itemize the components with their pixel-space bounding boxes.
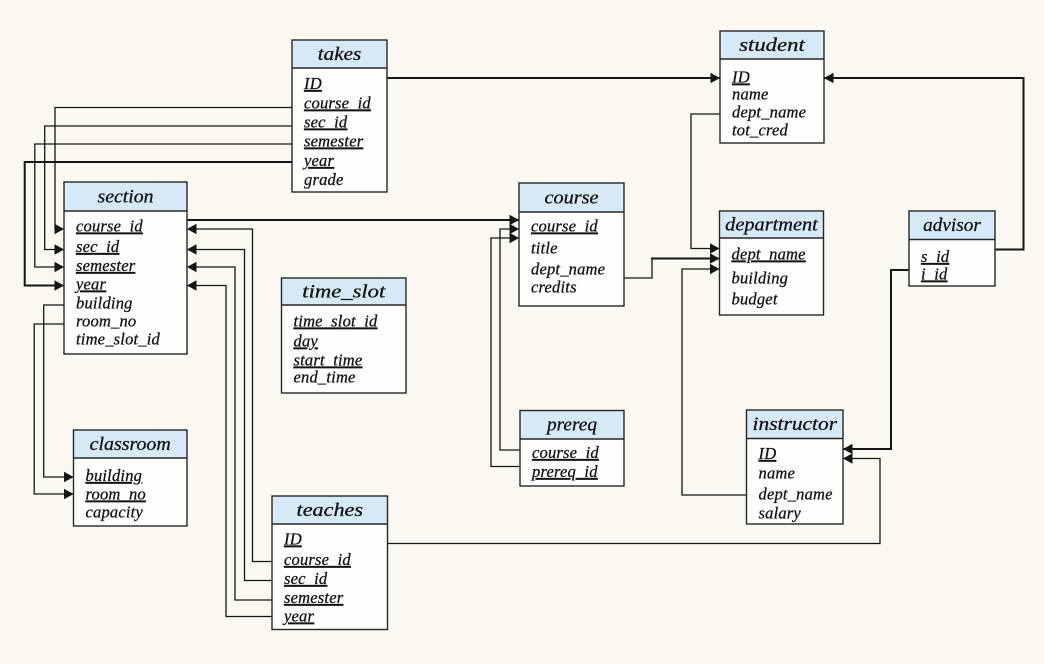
svg-text:ID: ID	[758, 444, 777, 463]
svg-text:semester: semester	[284, 588, 344, 607]
svg-text:grade: grade	[304, 170, 344, 189]
svg-text:building: building	[732, 269, 789, 288]
table course	[519, 183, 624, 306]
svg-text:course_id: course_id	[284, 550, 351, 569]
svg-text:ID: ID	[283, 530, 302, 549]
wire advisor.i_id to instructor.ID	[843, 270, 909, 454]
svg-text:budget: budget	[732, 290, 778, 309]
svg-text:building: building	[76, 294, 133, 313]
svg-text:year: year	[74, 275, 106, 294]
svg-text:end_time: end_time	[294, 368, 356, 387]
svg-text:credits: credits	[531, 278, 577, 297]
svg-text:course_id: course_id	[76, 217, 143, 236]
svg-text:year: year	[282, 607, 314, 626]
svg-text:student: student	[739, 36, 806, 56]
svg-text:instructor: instructor	[753, 415, 838, 435]
svg-text:title: title	[531, 239, 558, 258]
table advisor	[909, 211, 995, 286]
svg-text:dept_name: dept_name	[732, 245, 806, 264]
svg-text:room_no: room_no	[76, 312, 136, 331]
svg-text:course_id: course_id	[531, 217, 598, 236]
svg-text:dept_name: dept_name	[531, 260, 605, 279]
svg-text:time_slot_id: time_slot_id	[294, 312, 379, 331]
wire course.dept_name to department.dept_name	[624, 259, 652, 279]
svg-text:course_id: course_id	[304, 94, 371, 113]
svg-text:day: day	[294, 332, 319, 351]
wire takes.course_id to section.course_id	[55, 108, 293, 235]
svg-text:sec_id: sec_id	[76, 237, 120, 256]
wire advisor.s_id to student.ID	[824, 73, 1024, 250]
svg-text:section: section	[98, 188, 154, 208]
svg-text:building: building	[86, 466, 143, 485]
table takes	[292, 40, 387, 192]
wire teaches.year to section.year	[187, 280, 272, 616]
table prereq	[520, 411, 624, 487]
wire teaches.ID to instructor.ID	[388, 453, 881, 543]
table teaches	[272, 496, 388, 630]
svg-text:course: course	[545, 189, 599, 209]
wire takes.ID to student.ID	[387, 73, 720, 83]
wire teaches.sec_id to section.sec_id	[187, 244, 272, 580]
svg-text:prereq_id: prereq_id	[531, 462, 598, 481]
svg-text:salary: salary	[759, 504, 802, 523]
svg-text:semester: semester	[76, 256, 136, 275]
svg-text:ID: ID	[303, 74, 322, 93]
svg-text:tot_cred: tot_cred	[732, 121, 789, 140]
table classroom	[74, 430, 188, 526]
svg-text:sec_id: sec_id	[304, 113, 348, 132]
table student	[720, 31, 824, 143]
wire section.room_no to classroom.room_no	[34, 324, 73, 499]
wire instructor.dept_name to department.dept_name	[682, 264, 747, 495]
wire prereq.prereq_id to course.course_id	[491, 233, 520, 467]
svg-text:capacity: capacity	[86, 503, 144, 522]
table department	[720, 211, 824, 315]
table instructor	[747, 410, 844, 524]
table section	[64, 182, 187, 354]
svg-text:teaches: teaches	[297, 501, 364, 521]
svg-text:time_slot_id: time_slot_id	[76, 330, 161, 349]
wire takes.sec_id to section.sec_id	[45, 126, 292, 255]
svg-text:department: department	[725, 216, 819, 236]
svg-text:course_id: course_id	[532, 443, 599, 462]
wire section.building to classroom.building	[44, 305, 74, 482]
svg-text:s_id: s_id	[921, 247, 950, 266]
svg-text:name: name	[732, 85, 769, 104]
svg-text:advisor: advisor	[923, 216, 982, 236]
svg-text:semester: semester	[304, 132, 364, 151]
wire section.course_id to course.course_id	[187, 215, 519, 225]
svg-text:dept_name: dept_name	[732, 103, 806, 122]
svg-text:room_no: room_no	[86, 485, 146, 504]
wire course.dept_name to department.dept_name arrow segment	[651, 253, 720, 263]
wire teaches.course_id to section.course_id	[187, 224, 272, 562]
svg-text:classroom: classroom	[90, 435, 171, 455]
wire teaches.semester to section.semester	[187, 262, 272, 600]
wire takes.year to section.year	[25, 162, 292, 291]
svg-text:prereq: prereq	[545, 416, 597, 436]
svg-text:dept_name: dept_name	[759, 485, 833, 504]
wire prereq.course_id to course.course_id	[500, 224, 520, 450]
svg-text:year: year	[302, 151, 334, 170]
wire student.dept_name to department.dept_name	[691, 114, 720, 254]
svg-text:takes: takes	[318, 45, 362, 65]
svg-text:time_slot: time_slot	[302, 283, 386, 303]
wire takes.semester to section.semester	[35, 144, 292, 272]
svg-text:name: name	[759, 464, 796, 483]
table time_slot	[282, 278, 407, 393]
svg-text:i_id: i_id	[921, 265, 948, 284]
svg-text:sec_id: sec_id	[284, 569, 328, 588]
